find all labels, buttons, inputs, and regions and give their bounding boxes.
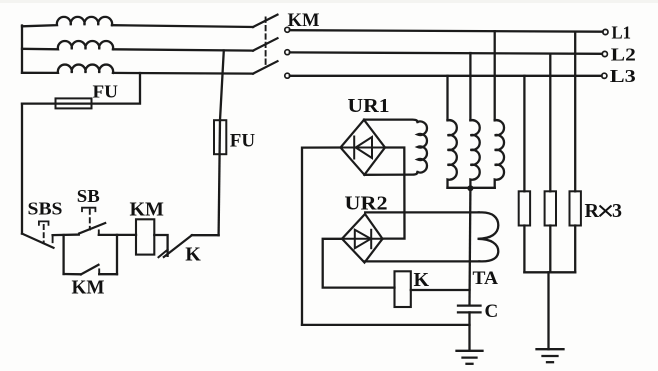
UR1 diode triangle	[356, 137, 372, 158]
terminal L1 circle	[603, 29, 608, 34]
label R x3 cross stroke 2	[600, 206, 612, 217]
KM auxiliary contact blade	[81, 265, 99, 275]
TA secondary winding humps	[478, 212, 499, 261]
wire L3	[290, 75, 602, 77]
transformer primary winding 2	[470, 120, 479, 188]
svg-text:KM: KM	[288, 10, 320, 31]
scan edge band	[0, 0, 658, 3]
fuse FU2 body	[214, 120, 226, 154]
resistor drop wire 1	[523, 76, 525, 192]
transformer primary drop wire 1	[446, 76, 448, 121]
SBS actuator dashes	[43, 225, 45, 243]
svg-text:L1: L1	[612, 23, 632, 43]
K contact tick	[159, 250, 168, 257]
transformer star bus wire	[448, 187, 495, 189]
resistor R2 body	[545, 191, 556, 225]
UR1 diode cathode bar	[353, 137, 355, 159]
svg-text:R: R	[585, 200, 600, 222]
svg-text:UR1: UR1	[348, 95, 390, 117]
svg-text:L2: L2	[611, 44, 636, 64]
junction node dot	[467, 185, 473, 191]
contactor KM main contact 1 blade	[253, 15, 278, 27]
wire L1	[290, 30, 603, 32]
wire K contact to right rail	[192, 234, 219, 236]
capacitor C top plate	[458, 304, 481, 306]
SB actuator head	[82, 208, 95, 212]
resistor R1 bottom wire	[523, 226, 525, 273]
wire fuse FU2 to phase 2	[220, 50, 224, 120]
contactor KM main contact 2 blade	[253, 38, 278, 50]
terminal L3 circle	[602, 73, 607, 78]
wire UR1 right corner down to UR2 right corner	[383, 148, 405, 239]
wire UR2 top to TA winding	[365, 211, 479, 213]
motor winding coil phase 1	[22, 17, 112, 26]
wire control rail to fuse FU2	[219, 120, 220, 235]
UR2 diode line through	[342, 238, 383, 240]
latch fixed contact tick	[98, 269, 100, 274]
capacitor C bottom plate	[458, 311, 481, 313]
transformer primary drop wire 3	[494, 31, 496, 120]
svg-text:KM: KM	[130, 198, 165, 220]
transformer primary drop wire 2	[469, 53, 471, 120]
svg-text:SBS: SBS	[28, 198, 63, 218]
SBS fixed contact tick	[52, 235, 54, 242]
svg-text:3: 3	[612, 200, 622, 222]
rectifier UR2 diamond	[342, 214, 383, 263]
transformer secondary coil for UR1	[418, 121, 427, 172]
latch bottom wire left	[64, 273, 81, 276]
resistor R3 bottom wire	[574, 226, 576, 273]
svg-text:C: C	[485, 301, 499, 322]
wire UR1 bottom to secondary coil	[364, 172, 417, 175]
ground symbol left	[457, 351, 483, 364]
latch bottom wire right	[99, 273, 117, 275]
UR1 diode line through	[341, 147, 386, 149]
resistor drop wire 3	[574, 32, 576, 192]
wire TA winding to UR2 bottom	[365, 260, 480, 262]
contactor KM main contact 3 blade	[253, 61, 278, 73]
svg-text:SB: SB	[77, 186, 100, 206]
contact 3 fixed circle	[285, 73, 290, 78]
TA primary line down	[468, 188, 471, 305]
wire tap from phase 3 down to fuse FU1	[22, 73, 140, 104]
transformer primary winding 3	[495, 120, 504, 188]
resistor R2 bottom wire	[549, 226, 551, 273]
svg-text:L3: L3	[610, 66, 636, 86]
SBS actuator head	[39, 221, 49, 224]
motor winding coil phase 3	[22, 65, 113, 73]
wire relay K to capacitor line	[411, 289, 470, 291]
contact 1 fixed circle	[285, 27, 290, 32]
bottom loop wire	[302, 324, 470, 326]
svg-text:UR2: UR2	[345, 192, 388, 214]
wire star point vertical	[21, 26, 23, 73]
pushbutton SB blade	[79, 223, 105, 233]
wire L2	[290, 52, 602, 53]
terminal L2 circle	[602, 51, 607, 56]
contactor coil KM body	[136, 219, 154, 254]
left control rail	[21, 104, 23, 234]
wire KM coil to K contact	[154, 235, 167, 256]
wire SB to KM coil	[99, 234, 136, 236]
latch branch right vertical	[116, 235, 118, 274]
svg-text:FU: FU	[93, 81, 119, 101]
resistor bus wire	[524, 271, 575, 273]
wire SBS to SB	[53, 233, 79, 236]
UR2 diode triangle	[355, 230, 371, 248]
svg-text:KM: KM	[72, 276, 105, 298]
latch branch left vertical	[62, 235, 64, 274]
contact 2 fixed circle	[285, 50, 290, 55]
wire bus to ground right	[547, 272, 549, 349]
svg-text:FU: FU	[230, 131, 256, 152]
svg-text:K: K	[185, 243, 201, 265]
wire phase 1 to contact	[112, 25, 253, 27]
resistor R3 body	[570, 191, 581, 225]
label R x3 cross stroke 1	[600, 206, 612, 217]
motor winding coil phase 2	[22, 41, 113, 49]
SB fixed contact tick	[98, 230, 100, 235]
wire capacitor to ground	[468, 312, 470, 350]
relay contact K blade	[164, 235, 192, 257]
wire UR2 left corner down to relay K	[323, 239, 395, 288]
rectifier UR1 diamond	[341, 120, 386, 175]
resistor drop wire 2	[549, 54, 551, 192]
KM linkage dashed line	[265, 18, 267, 67]
svg-text:K: K	[414, 269, 430, 291]
resistor R1 body	[519, 191, 530, 225]
wire UR1 top to secondary coil	[364, 120, 418, 122]
fuse FU1 body	[56, 98, 92, 108]
pushbutton SBS blade	[22, 234, 54, 248]
UR2 diode cathode bar	[370, 230, 372, 248]
svg-text:TA: TA	[473, 268, 499, 289]
relay coil K body	[395, 271, 411, 307]
wire UR1 left corner to left rail	[302, 148, 341, 325]
wire phase 3 to contact	[113, 72, 253, 75]
ground symbol right	[537, 349, 564, 362]
transformer primary winding 1	[448, 120, 457, 188]
wire phase 2 to contact	[113, 49, 253, 50]
SB actuator dashes	[89, 210, 91, 230]
